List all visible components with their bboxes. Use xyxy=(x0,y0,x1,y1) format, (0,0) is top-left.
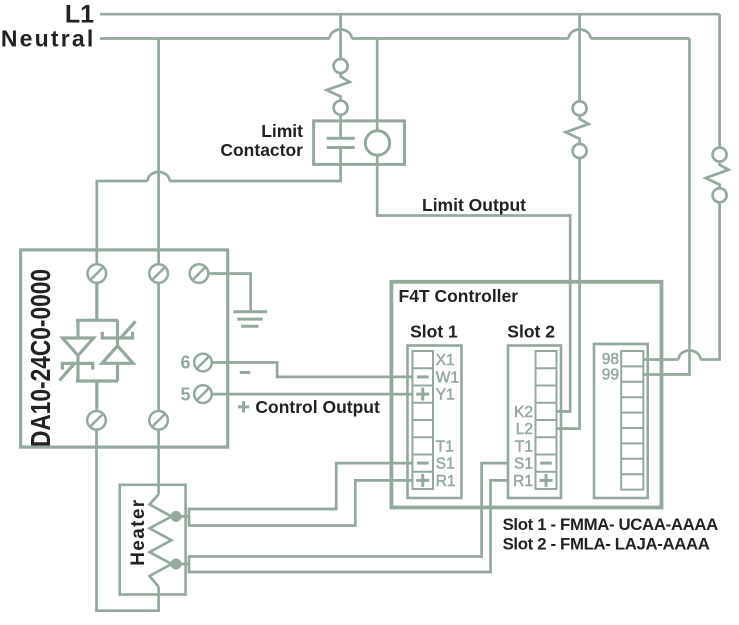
svg-text:F4T Controller: F4T Controller xyxy=(399,286,519,306)
svg-text:R1: R1 xyxy=(513,473,533,490)
svg-text:Slot 1 - FMMA- UCAA-AAAA: Slot 1 - FMMA- UCAA-AAAA xyxy=(503,515,719,534)
svg-text:Slot 2 - FMLA- LAJA-AAAA: Slot 2 - FMLA- LAJA-AAAA xyxy=(503,535,710,554)
svg-text:6: 6 xyxy=(180,353,190,373)
svg-text:T1: T1 xyxy=(436,438,454,455)
svg-text:Heater: Heater xyxy=(128,499,149,566)
svg-text:Y1: Y1 xyxy=(436,387,455,404)
svg-text:L1: L1 xyxy=(65,0,94,28)
svg-text:Limit Output: Limit Output xyxy=(422,195,526,215)
svg-text:W1: W1 xyxy=(436,369,459,386)
svg-text:Control Output: Control Output xyxy=(255,397,380,417)
svg-text:K2: K2 xyxy=(514,404,533,421)
svg-text:S1: S1 xyxy=(436,456,455,473)
svg-text:Slot 2: Slot 2 xyxy=(507,322,555,342)
svg-text:5: 5 xyxy=(180,384,190,404)
svg-text:R1: R1 xyxy=(436,473,456,490)
svg-text:Limit: Limit xyxy=(261,121,303,141)
svg-text:Contactor: Contactor xyxy=(220,140,303,160)
svg-text:T1: T1 xyxy=(515,438,533,455)
svg-text:DA10-24C0-0000: DA10-24C0-0000 xyxy=(25,269,56,447)
svg-text:Neutral: Neutral xyxy=(1,26,96,52)
svg-text:99: 99 xyxy=(602,367,619,384)
svg-text:X1: X1 xyxy=(436,352,455,369)
svg-text:Slot 1: Slot 1 xyxy=(410,322,458,342)
svg-text:L2: L2 xyxy=(516,421,533,438)
svg-text:S1: S1 xyxy=(514,456,533,473)
